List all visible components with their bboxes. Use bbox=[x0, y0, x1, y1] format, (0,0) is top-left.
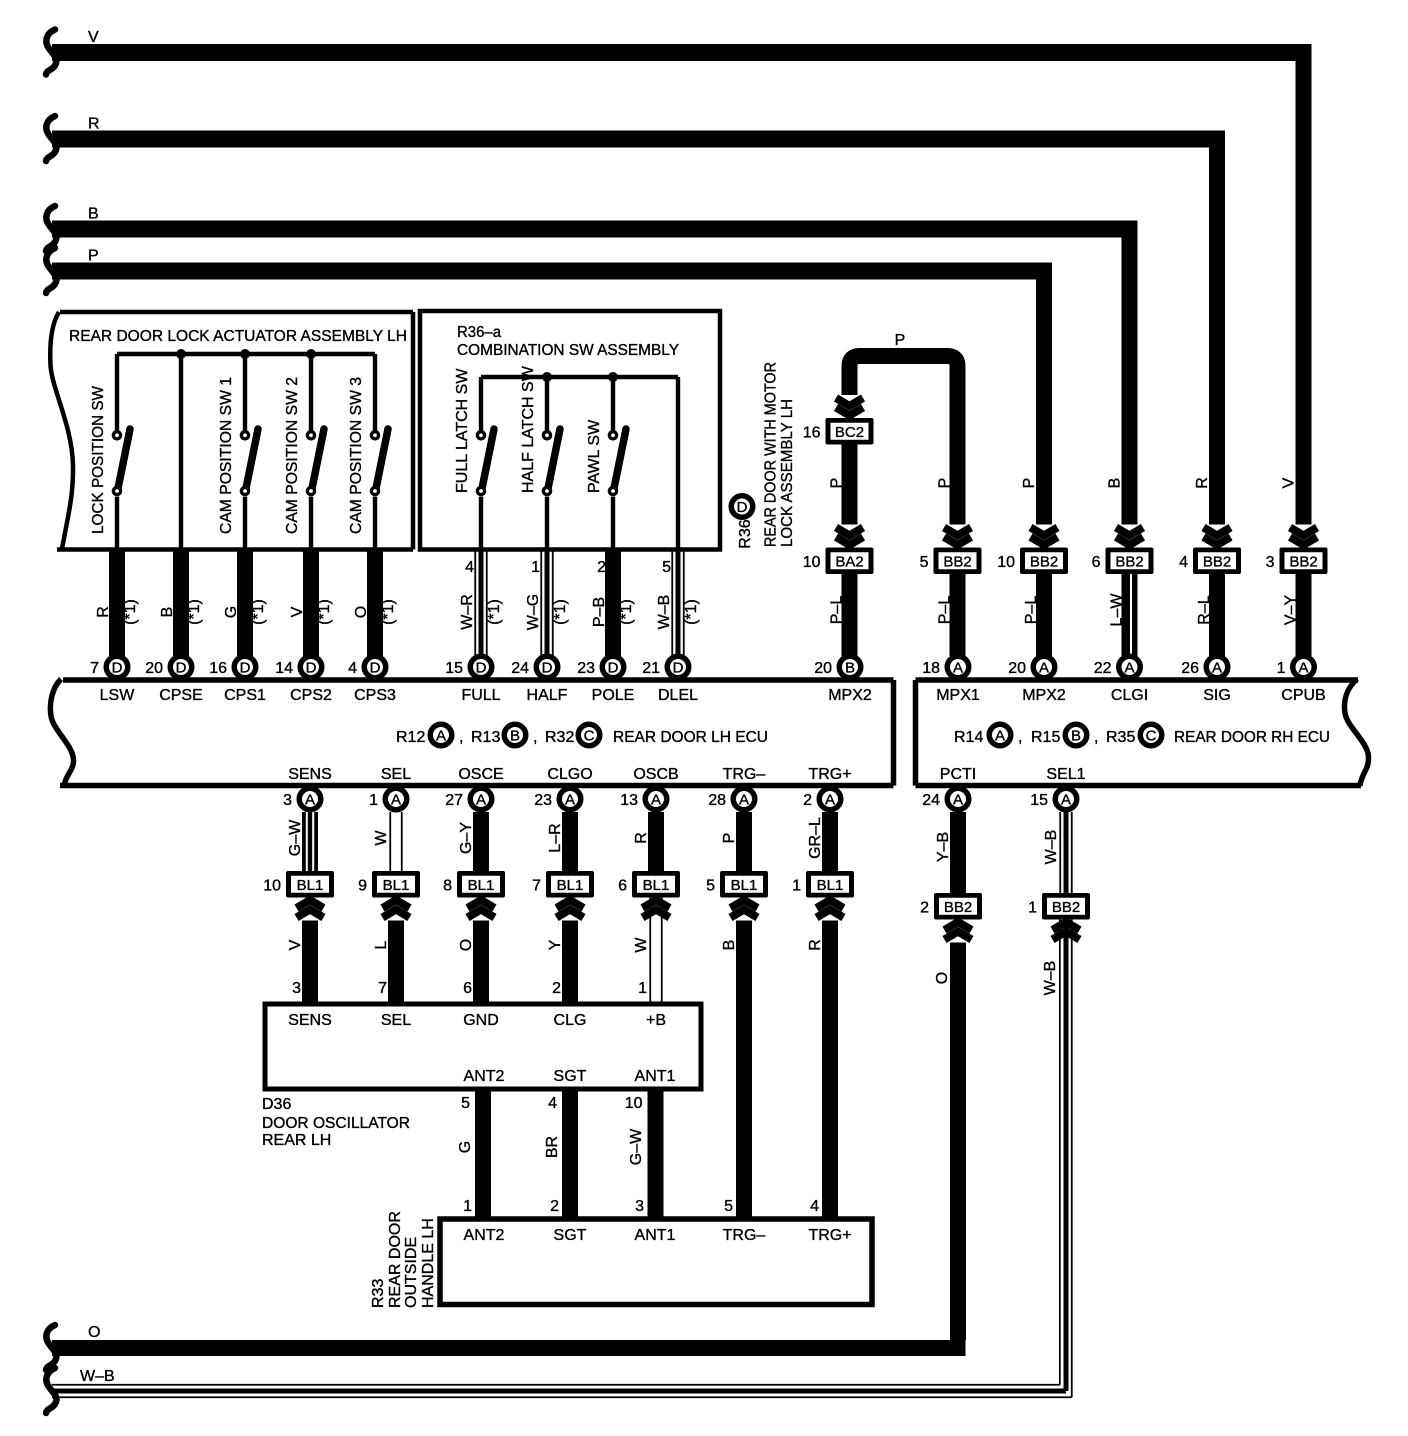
svg-text:W: W bbox=[633, 937, 650, 953]
svg-text:26: 26 bbox=[1181, 660, 1199, 677]
svg-text:A: A bbox=[1212, 660, 1222, 677]
svg-text:1: 1 bbox=[531, 559, 540, 576]
svg-text:15: 15 bbox=[1030, 792, 1048, 809]
svg-text:W–R: W–R bbox=[459, 594, 476, 630]
svg-text:P: P bbox=[721, 833, 738, 844]
svg-text:V: V bbox=[88, 29, 99, 46]
svg-text:CPS2: CPS2 bbox=[290, 687, 332, 704]
svg-text:A: A bbox=[739, 792, 749, 809]
svg-text:L–W: L–W bbox=[1109, 593, 1126, 627]
svg-text:CPS1: CPS1 bbox=[224, 687, 266, 704]
svg-text:COMBINATION SW ASSEMBLY: COMBINATION SW ASSEMBLY bbox=[457, 342, 679, 359]
svg-text:B: B bbox=[1071, 728, 1081, 745]
svg-text:A: A bbox=[1061, 792, 1071, 809]
svg-text:23: 23 bbox=[577, 660, 595, 677]
svg-text:1: 1 bbox=[463, 1198, 472, 1215]
svg-text:CAM POSITION SW 3: CAM POSITION SW 3 bbox=[348, 377, 365, 534]
svg-text:P: P bbox=[829, 478, 846, 489]
svg-text:G: G bbox=[223, 606, 240, 618]
svg-text:4: 4 bbox=[348, 660, 357, 677]
svg-text:A: A bbox=[391, 792, 401, 809]
svg-text:A: A bbox=[1124, 660, 1134, 677]
svg-text:R: R bbox=[88, 116, 100, 133]
svg-text:BB2: BB2 bbox=[1030, 553, 1058, 570]
svg-text:REAR DOOR LH ECU: REAR DOOR LH ECU bbox=[613, 729, 768, 746]
svg-text:BR: BR bbox=[544, 1136, 561, 1158]
svg-text:W–B: W–B bbox=[656, 595, 673, 630]
svg-text:TRG+: TRG+ bbox=[808, 766, 851, 783]
svg-text:LSW: LSW bbox=[100, 687, 136, 704]
svg-text:1: 1 bbox=[638, 980, 647, 997]
svg-text:TRG+: TRG+ bbox=[808, 1227, 851, 1244]
svg-text:4: 4 bbox=[548, 1095, 557, 1112]
svg-text:ANT1: ANT1 bbox=[635, 1068, 676, 1085]
svg-text:G: G bbox=[457, 1141, 474, 1153]
svg-text:Y–B: Y–B bbox=[935, 832, 952, 862]
svg-text:6: 6 bbox=[1092, 554, 1101, 571]
svg-text:8: 8 bbox=[443, 877, 452, 894]
svg-text:1: 1 bbox=[369, 792, 378, 809]
svg-text:BL1: BL1 bbox=[383, 877, 410, 894]
svg-text:CPSE: CPSE bbox=[159, 687, 203, 704]
svg-text:1: 1 bbox=[792, 877, 801, 894]
svg-text:P: P bbox=[88, 248, 99, 265]
svg-text:2: 2 bbox=[920, 899, 929, 916]
svg-text:BL1: BL1 bbox=[297, 877, 324, 894]
svg-text:W: W bbox=[373, 830, 390, 846]
svg-text:R14: R14 bbox=[954, 729, 983, 746]
svg-text:PAWL SW: PAWL SW bbox=[586, 419, 603, 493]
svg-text:(*1): (*1) bbox=[380, 599, 397, 625]
svg-text:W–B: W–B bbox=[80, 1368, 115, 1385]
svg-text:HALF LATCH SW: HALF LATCH SW bbox=[520, 365, 537, 493]
svg-text:R: R bbox=[807, 939, 824, 951]
svg-text:G–W: G–W bbox=[287, 819, 304, 856]
svg-text:10: 10 bbox=[625, 1095, 643, 1112]
svg-text:A: A bbox=[953, 792, 963, 809]
svg-text:A: A bbox=[825, 792, 835, 809]
svg-text:C: C bbox=[584, 728, 595, 745]
svg-text:5: 5 bbox=[920, 554, 929, 571]
svg-text:L–R: L–R bbox=[547, 823, 564, 852]
svg-text:A: A bbox=[1298, 660, 1308, 677]
svg-text:FULL: FULL bbox=[461, 687, 500, 704]
svg-text:CLGO: CLGO bbox=[547, 766, 592, 783]
svg-text:B: B bbox=[845, 660, 855, 677]
svg-text:G–Y: G–Y bbox=[458, 822, 475, 854]
svg-text:14: 14 bbox=[275, 660, 293, 677]
svg-text:6: 6 bbox=[618, 877, 627, 894]
svg-text:DLEL: DLEL bbox=[658, 687, 698, 704]
svg-text:R36: R36 bbox=[737, 519, 754, 548]
svg-text:BB2: BB2 bbox=[1052, 899, 1080, 916]
svg-text:O: O bbox=[458, 939, 475, 951]
svg-text:7: 7 bbox=[532, 877, 541, 894]
svg-text:,: , bbox=[459, 729, 463, 746]
svg-text:BL1: BL1 bbox=[817, 877, 844, 894]
svg-text:D: D bbox=[240, 660, 251, 677]
svg-text:CAM POSITION SW 1: CAM POSITION SW 1 bbox=[218, 377, 235, 534]
svg-text:BL1: BL1 bbox=[731, 877, 758, 894]
svg-text:GND: GND bbox=[463, 1012, 499, 1029]
svg-text:24: 24 bbox=[511, 660, 529, 677]
svg-text:REAR DOOR RH ECU: REAR DOOR RH ECU bbox=[1174, 729, 1330, 746]
svg-text:G–W: G–W bbox=[628, 1128, 645, 1165]
svg-text:V–Y: V–Y bbox=[1283, 595, 1300, 626]
svg-text:,: , bbox=[533, 729, 537, 746]
svg-text:LOCK POSITION SW: LOCK POSITION SW bbox=[90, 385, 107, 534]
svg-text:LOCK ASSEMBLY LH: LOCK ASSEMBLY LH bbox=[779, 399, 796, 547]
svg-text:R13: R13 bbox=[471, 729, 500, 746]
svg-text:O: O bbox=[934, 972, 951, 984]
svg-text:20: 20 bbox=[1008, 660, 1026, 677]
svg-text:5: 5 bbox=[724, 1198, 733, 1215]
svg-text:R36–a: R36–a bbox=[457, 324, 501, 341]
svg-text:B: B bbox=[88, 206, 99, 223]
svg-text:(*1): (*1) bbox=[618, 599, 635, 625]
svg-text:B: B bbox=[159, 607, 176, 618]
svg-text:BB2: BB2 bbox=[1203, 553, 1231, 570]
svg-text:BB2: BB2 bbox=[1115, 553, 1143, 570]
svg-text:HANDLE LH: HANDLE LH bbox=[420, 1218, 437, 1308]
svg-text:TRG–: TRG– bbox=[723, 1227, 766, 1244]
svg-text:ANT2: ANT2 bbox=[464, 1227, 505, 1244]
svg-text:BB2: BB2 bbox=[1289, 553, 1317, 570]
svg-text:TRG–: TRG– bbox=[723, 766, 766, 783]
svg-text:R: R bbox=[633, 832, 650, 844]
svg-text:B: B bbox=[721, 940, 738, 951]
svg-text:(*1): (*1) bbox=[683, 599, 700, 625]
svg-text:23: 23 bbox=[534, 792, 552, 809]
svg-text:D: D bbox=[542, 660, 553, 677]
svg-text:DOOR OSCILLATOR: DOOR OSCILLATOR bbox=[262, 1115, 410, 1132]
svg-text:D36: D36 bbox=[262, 1096, 291, 1113]
svg-text:O: O bbox=[88, 1324, 100, 1341]
svg-text:P–B: P–B bbox=[591, 597, 608, 627]
svg-text:OUTSIDE: OUTSIDE bbox=[403, 1237, 420, 1308]
svg-text:1: 1 bbox=[1028, 899, 1037, 916]
svg-text:A: A bbox=[565, 792, 575, 809]
svg-text:3: 3 bbox=[292, 980, 301, 997]
svg-text:A: A bbox=[436, 728, 446, 745]
svg-text:A: A bbox=[476, 792, 486, 809]
svg-text:SENS: SENS bbox=[288, 1012, 332, 1029]
svg-text:27: 27 bbox=[445, 792, 463, 809]
svg-text:,: , bbox=[1018, 729, 1022, 746]
svg-text:P–L: P–L bbox=[829, 596, 846, 625]
svg-text:D: D bbox=[306, 660, 317, 677]
svg-text:SGT: SGT bbox=[554, 1227, 587, 1244]
svg-text:4: 4 bbox=[465, 559, 474, 576]
svg-text:GR–L: GR–L bbox=[807, 817, 824, 859]
svg-text:4: 4 bbox=[810, 1198, 819, 1215]
svg-text:D: D bbox=[608, 660, 619, 677]
svg-text:A: A bbox=[305, 792, 315, 809]
svg-text:BB2: BB2 bbox=[944, 899, 972, 916]
svg-text:R33: R33 bbox=[370, 1279, 387, 1308]
svg-text:REAR DOOR: REAR DOOR bbox=[387, 1211, 404, 1308]
svg-text:SGT: SGT bbox=[554, 1068, 587, 1085]
svg-text:CPUB: CPUB bbox=[1281, 687, 1325, 704]
svg-text:O: O bbox=[353, 606, 370, 618]
svg-text:BB2: BB2 bbox=[943, 553, 971, 570]
svg-text:5: 5 bbox=[662, 559, 671, 576]
svg-text:20: 20 bbox=[814, 660, 832, 677]
svg-text:A: A bbox=[1039, 660, 1049, 677]
svg-text:7: 7 bbox=[378, 980, 387, 997]
svg-text:REAR DOOR LOCK ACTUATOR ASSEMB: REAR DOOR LOCK ACTUATOR ASSEMBLY LH bbox=[69, 328, 407, 345]
svg-text:1: 1 bbox=[1277, 660, 1286, 677]
svg-text:PCTI: PCTI bbox=[940, 766, 976, 783]
svg-text:R: R bbox=[95, 606, 112, 618]
svg-text:REAR DOOR WITH MOTOR: REAR DOOR WITH MOTOR bbox=[762, 362, 779, 547]
svg-text:P–L: P–L bbox=[1023, 596, 1040, 625]
svg-text:L: L bbox=[373, 940, 390, 949]
svg-text:(*1): (*1) bbox=[122, 599, 139, 625]
svg-text:2: 2 bbox=[597, 559, 606, 576]
svg-text:FULL LATCH SW: FULL LATCH SW bbox=[454, 368, 471, 493]
svg-text:REAR LH: REAR LH bbox=[262, 1132, 331, 1149]
svg-text:+B: +B bbox=[646, 1012, 666, 1029]
svg-text:SEL: SEL bbox=[381, 1012, 411, 1029]
svg-text:BL1: BL1 bbox=[643, 877, 670, 894]
svg-text:5: 5 bbox=[706, 877, 715, 894]
svg-text:22: 22 bbox=[1094, 660, 1112, 677]
svg-text:D: D bbox=[476, 660, 487, 677]
svg-text:15: 15 bbox=[445, 660, 463, 677]
svg-text:R32: R32 bbox=[545, 729, 574, 746]
svg-text:OSCB: OSCB bbox=[633, 766, 678, 783]
svg-text:D: D bbox=[112, 660, 123, 677]
svg-text:3: 3 bbox=[283, 792, 292, 809]
svg-text:R35: R35 bbox=[1106, 729, 1135, 746]
svg-text:B: B bbox=[1107, 478, 1124, 489]
svg-text:BL1: BL1 bbox=[468, 877, 495, 894]
svg-text:D: D bbox=[176, 660, 187, 677]
svg-text:4: 4 bbox=[1179, 554, 1188, 571]
svg-text:P: P bbox=[895, 332, 906, 349]
svg-text:B: B bbox=[510, 728, 520, 745]
svg-text:HALF: HALF bbox=[527, 687, 568, 704]
svg-text:MPX2: MPX2 bbox=[828, 687, 872, 704]
svg-text:CPS3: CPS3 bbox=[354, 687, 396, 704]
svg-text:OSCE: OSCE bbox=[458, 766, 503, 783]
svg-text:10: 10 bbox=[263, 877, 281, 894]
svg-text:16: 16 bbox=[803, 424, 821, 441]
svg-text:(*1): (*1) bbox=[552, 599, 569, 625]
svg-text:CLG: CLG bbox=[554, 1012, 587, 1029]
svg-text:V: V bbox=[289, 606, 306, 617]
svg-text:W–B: W–B bbox=[1042, 961, 1059, 996]
svg-text:3: 3 bbox=[1266, 554, 1275, 571]
svg-text:16: 16 bbox=[209, 660, 227, 677]
svg-text:C: C bbox=[1146, 728, 1157, 745]
svg-text:(*1): (*1) bbox=[186, 599, 203, 625]
svg-text:(*1): (*1) bbox=[250, 599, 267, 625]
svg-text:6: 6 bbox=[463, 980, 472, 997]
svg-text:7: 7 bbox=[90, 660, 99, 677]
svg-text:MPX1: MPX1 bbox=[936, 687, 980, 704]
svg-text:A: A bbox=[995, 728, 1005, 745]
svg-text:BL1: BL1 bbox=[557, 877, 584, 894]
svg-text:5: 5 bbox=[461, 1095, 470, 1112]
svg-text:POLE: POLE bbox=[592, 687, 635, 704]
svg-text:10: 10 bbox=[803, 554, 821, 571]
svg-text:P: P bbox=[1021, 478, 1038, 489]
svg-text:D: D bbox=[737, 499, 748, 516]
svg-text:R15: R15 bbox=[1031, 729, 1060, 746]
svg-text:ANT2: ANT2 bbox=[464, 1068, 505, 1085]
svg-text:21: 21 bbox=[642, 660, 660, 677]
svg-text:V: V bbox=[287, 939, 304, 950]
svg-text:Y: Y bbox=[547, 939, 564, 950]
svg-text:20: 20 bbox=[145, 660, 163, 677]
svg-text:V: V bbox=[1281, 477, 1298, 488]
svg-text:SEL: SEL bbox=[381, 766, 411, 783]
svg-text:13: 13 bbox=[620, 792, 638, 809]
svg-text:SIG: SIG bbox=[1203, 687, 1231, 704]
svg-text:(*1): (*1) bbox=[486, 599, 503, 625]
svg-text:MPX2: MPX2 bbox=[1022, 687, 1066, 704]
svg-text:3: 3 bbox=[635, 1198, 644, 1215]
svg-text:10: 10 bbox=[997, 554, 1015, 571]
svg-text:2: 2 bbox=[550, 1198, 559, 1215]
svg-text:18: 18 bbox=[922, 660, 940, 677]
svg-text:CLGI: CLGI bbox=[1111, 687, 1148, 704]
svg-text:24: 24 bbox=[922, 792, 940, 809]
svg-text:A: A bbox=[953, 660, 963, 677]
svg-text:ANT1: ANT1 bbox=[635, 1227, 676, 1244]
svg-text:R12: R12 bbox=[396, 729, 425, 746]
svg-text:P: P bbox=[937, 478, 954, 489]
svg-text:,: , bbox=[1094, 729, 1098, 746]
svg-text:SENS: SENS bbox=[288, 766, 332, 783]
svg-text:D: D bbox=[673, 660, 684, 677]
svg-text:W–G: W–G bbox=[525, 594, 542, 630]
svg-text:D: D bbox=[370, 660, 381, 677]
svg-text:P–L: P–L bbox=[937, 596, 954, 625]
svg-text:R–L: R–L bbox=[1196, 595, 1213, 624]
svg-text:9: 9 bbox=[358, 877, 367, 894]
svg-text:BC2: BC2 bbox=[835, 424, 864, 441]
svg-text:28: 28 bbox=[708, 792, 726, 809]
svg-text:2: 2 bbox=[803, 792, 812, 809]
svg-text:A: A bbox=[651, 792, 661, 809]
svg-text:SEL1: SEL1 bbox=[1046, 766, 1085, 783]
svg-text:R: R bbox=[1194, 477, 1211, 489]
svg-text:(*1): (*1) bbox=[316, 599, 333, 625]
svg-text:BA2: BA2 bbox=[835, 553, 863, 570]
svg-text:CAM POSITION SW 2: CAM POSITION SW 2 bbox=[284, 377, 301, 534]
svg-text:2: 2 bbox=[552, 980, 561, 997]
svg-text:W–B: W–B bbox=[1043, 830, 1060, 865]
